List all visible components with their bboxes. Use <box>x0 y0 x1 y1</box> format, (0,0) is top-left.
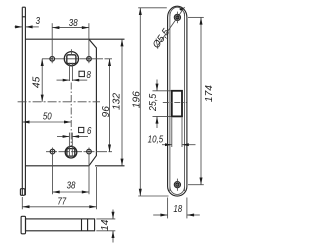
dim sq8 arrow tails <box>57 79 70 81</box>
dim 25.5 line <box>156 80 158 91</box>
dim 25.5 extensions <box>153 90 172 92</box>
sq8 extension lines <box>69 63 71 81</box>
spindle top centerline tick <box>70 49 72 55</box>
label 132 <box>112 93 123 110</box>
latch <box>172 91 182 117</box>
extension line top-right hole <box>88 23 90 63</box>
dim 14 arrows <box>112 212 115 219</box>
dim 174 bottom extension <box>188 184 204 186</box>
faceplate outline <box>168 6 187 196</box>
top hole centerline tick <box>176 12 178 24</box>
label 50 <box>43 111 52 122</box>
top hole centerline <box>42 58 112 60</box>
label 18 <box>173 203 183 214</box>
faceplate inner top arc <box>170 7 185 16</box>
dim 132 line <box>121 39 123 166</box>
dim 96 arrows <box>108 59 111 66</box>
dim 50 line <box>22 121 71 123</box>
dim 45 line <box>41 59 43 102</box>
svg-text:25,5: 25,5 <box>148 93 160 112</box>
faceplate inner right line <box>184 13 186 192</box>
label 77 <box>57 195 67 206</box>
dim 10.5 latch extensions <box>171 118 173 148</box>
label 8 <box>86 69 91 80</box>
label sq8 square <box>79 71 84 76</box>
bottom hole centerline tick <box>176 179 178 191</box>
screw hole top-right <box>87 57 92 62</box>
faceplate strip edge (front view) <box>21 7 23 195</box>
svg-text:196: 196 <box>132 91 143 108</box>
extension line bottom-left hole <box>52 148 54 195</box>
label 96 <box>101 106 112 118</box>
dim 18 extensions <box>167 198 169 219</box>
label 45 <box>32 76 43 88</box>
leader line dia 5.5 <box>158 7 185 45</box>
sq6 arrows <box>63 135 70 138</box>
lock body outline <box>25 39 96 166</box>
label 3 <box>36 15 40 26</box>
top screw hole <box>174 14 180 20</box>
svg-text:50: 50 <box>43 111 52 122</box>
label 196 <box>132 91 143 108</box>
latch centerline <box>163 102 187 104</box>
dim 38 top line <box>52 27 89 29</box>
dim 25.5 arrows <box>156 84 159 91</box>
bottom view divider 2 <box>87 219 89 231</box>
bottom screw slot <box>176 184 178 186</box>
dim 3 arrows (outside) <box>15 25 22 28</box>
label dia 5.5 <box>150 27 172 52</box>
spindle follower top square hole <box>67 55 76 64</box>
dim 196 top extension <box>138 7 167 9</box>
dim 38 bottom arrows <box>53 191 60 194</box>
spindle follower top circle <box>64 52 78 66</box>
svg-text:18: 18 <box>173 203 183 214</box>
body top edge extension to 132 dim <box>89 38 125 40</box>
dim 77 left extension <box>21 197 23 209</box>
label 174 <box>204 85 215 102</box>
screw hole bottom-right <box>87 149 92 154</box>
dim 77 arrows <box>22 205 29 208</box>
dim 196 bottom extension <box>138 195 168 197</box>
bottom hole centerline <box>46 151 112 153</box>
dia5.5 leader arrow <box>179 8 184 11</box>
label 6 <box>87 125 92 136</box>
dim 174 top extension <box>188 16 204 18</box>
svg-text:174: 174 <box>204 85 214 102</box>
dim 77 right extension <box>96 167 98 209</box>
ARROWHEADS <box>15 8 202 238</box>
dim 96 line <box>109 59 111 152</box>
label 38 top <box>69 17 79 28</box>
screw hole bottom-left <box>50 149 55 154</box>
svg-text:38: 38 <box>67 180 77 191</box>
faceplate inner bottom arc <box>170 187 185 195</box>
svg-text:3: 3 <box>36 15 40 26</box>
bottom view cap <box>21 216 25 234</box>
dim sq6 arrow tails <box>57 136 69 138</box>
body bottom edge extension to 132 dim <box>95 165 125 167</box>
label 10.5 <box>148 133 164 144</box>
svg-text:38: 38 <box>69 17 79 28</box>
spindle follower bottom square hole <box>67 149 75 157</box>
label 25.5 <box>148 93 160 112</box>
label 14 <box>100 219 111 231</box>
faceplate strip bottom cap <box>20 189 24 196</box>
bottom view strip <box>26 219 95 231</box>
svg-text:Ø5,5: Ø5,5 <box>150 27 172 52</box>
label sq6 square <box>79 127 84 132</box>
bottom view divider 1 <box>81 219 83 231</box>
dim 14 extensions <box>96 218 115 220</box>
svg-text:77: 77 <box>57 195 67 206</box>
dim 196 line <box>139 8 141 196</box>
spindle follower bottom circles <box>65 146 77 158</box>
bottom screw hole <box>174 182 180 188</box>
dim 174 arrows <box>200 17 203 24</box>
svg-text:132: 132 <box>112 93 123 110</box>
dim 10.5 line <box>162 144 172 146</box>
dim 3 <box>15 26 23 28</box>
dim 10.5 arrows <box>165 143 172 146</box>
faceplate inner left line <box>169 13 171 192</box>
svg-text:10,5: 10,5 <box>148 133 164 144</box>
svg-text:96: 96 <box>101 106 112 118</box>
dim 14 line <box>112 210 114 219</box>
dim 132 arrows <box>121 39 124 46</box>
dim 174 line <box>200 17 202 184</box>
extension line bottom-right hole <box>88 148 90 195</box>
svg-text:14: 14 <box>100 219 111 231</box>
svg-text:45: 45 <box>32 76 43 88</box>
svg-text:6: 6 <box>87 125 92 136</box>
spindle centerline vertical <box>70 83 72 147</box>
dim 38 top arrows <box>52 26 59 29</box>
dim 38 bottom line <box>53 191 90 193</box>
dim 18 line <box>153 214 167 216</box>
dim 196 arrows <box>139 8 142 15</box>
dim 77 line <box>22 206 96 208</box>
dim 45 arrows <box>41 59 44 66</box>
svg-text:8: 8 <box>86 69 91 80</box>
label 38 bottom <box>67 180 77 191</box>
screw hole top-left <box>50 57 55 62</box>
top hole slot <box>176 16 178 18</box>
sq8 arrows <box>63 79 70 82</box>
dim 18 arrows <box>160 214 167 217</box>
mid centerline <box>18 101 100 103</box>
dim 50 arrows <box>22 121 29 124</box>
sq6 extension lines <box>68 133 70 157</box>
extension line top-left hole <box>51 23 53 63</box>
